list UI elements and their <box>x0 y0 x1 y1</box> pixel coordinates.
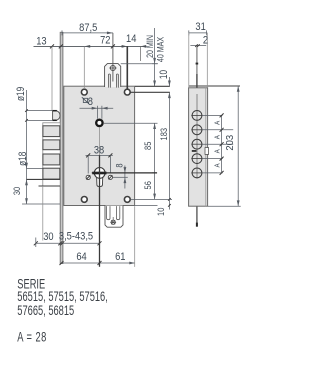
A ladder extension lines <box>202 114 223 116</box>
top latch bolt <box>105 64 121 87</box>
extension x140.5 <box>140 46 142 61</box>
dim 2 <box>190 45 206 47</box>
deadbolt box left extension down <box>42 186 44 241</box>
svg-text:61: 61 <box>115 252 126 264</box>
extension line x84.5 to screw <box>83 46 85 89</box>
183/10-bottom dimension line <box>168 92 170 209</box>
body bottom extension line <box>135 204 158 206</box>
svg-text:ø19: ø19 <box>15 87 27 101</box>
svg-text:8: 8 <box>88 96 94 108</box>
side bolt circle 2 <box>191 125 202 135</box>
latch top extension line <box>121 63 158 65</box>
svg-text:A: A <box>214 135 222 140</box>
upper rod light part <box>196 47 198 75</box>
deadbolt 4 <box>43 168 60 179</box>
svg-text:87,5: 87,5 <box>79 22 98 34</box>
dim 8 right of cylinder <box>113 176 128 178</box>
euro cylinder body circle <box>94 168 105 179</box>
dim 30 / 3,5-43,5 <box>36 242 100 244</box>
bottom screw extension line <box>130 198 172 200</box>
lock body case <box>64 86 135 205</box>
lower rod <box>196 206 198 226</box>
svg-text:2: 2 <box>203 35 209 47</box>
extension line x52 <box>51 46 53 110</box>
svg-text:10: 10 <box>155 207 166 216</box>
body right edge extension down <box>134 206 136 267</box>
square symbol of dim 8 <box>82 97 89 103</box>
svg-text:3,5-43,5: 3,5-43,5 <box>59 231 94 243</box>
side dark insert <box>192 150 197 152</box>
corner screw hole bottom-right <box>124 197 130 203</box>
dim 72 left arrow <box>84 45 90 48</box>
corner screw hole bottom-left <box>81 197 87 203</box>
deadbolt 2 <box>43 140 60 150</box>
heavy extension x127.3 to screw <box>126 46 128 89</box>
svg-text:30: 30 <box>43 232 54 244</box>
side faceplate inner line <box>205 88 207 206</box>
dim 38 <box>86 154 113 156</box>
svg-text:38: 38 <box>94 145 105 157</box>
svg-text:56515, 57515, 57516,: 56515, 57515, 57516, <box>17 291 108 305</box>
svg-text:14: 14 <box>126 33 137 45</box>
svg-text:8: 8 <box>113 163 124 167</box>
svg-text:85: 85 <box>142 141 153 150</box>
bottom latch screw crosshair <box>110 217 116 224</box>
dim 31 <box>189 32 208 34</box>
dim 64/61 <box>62 262 136 264</box>
follower extension line <box>104 122 158 124</box>
side centerline stub <box>196 94 198 179</box>
bottom latch bolt <box>105 206 123 228</box>
latch centerline <box>112 33 114 82</box>
20MIN/40MAX dimension line <box>154 28 156 86</box>
svg-text:183: 183 <box>158 128 169 141</box>
faceplate edge band <box>60 32 63 263</box>
side bolt circle 3 <box>191 139 202 149</box>
lower rod tip <box>196 223 198 227</box>
side bolt circle 4 <box>191 154 202 164</box>
svg-text:203: 203 <box>225 135 236 151</box>
A ladder vertical <box>221 115 223 172</box>
euro cylinder keyway <box>97 176 103 187</box>
svg-text:56: 56 <box>142 181 153 190</box>
deadbolt housing box <box>43 123 60 186</box>
svg-text:20 MIN: 20 MIN <box>144 35 155 58</box>
top latch slots <box>108 74 118 88</box>
corner screw hole top-right <box>124 89 130 95</box>
latch tip mark on rod <box>196 63 199 65</box>
svg-text:A: A <box>214 149 222 154</box>
10-top dimension line <box>168 77 170 86</box>
svg-text:31: 31 <box>195 22 206 34</box>
extension top screw line <box>130 91 169 93</box>
deadbolt 1 <box>43 126 60 137</box>
svg-text:40 MAX: 40 MAX <box>155 37 166 63</box>
svg-text:72: 72 <box>100 35 111 47</box>
dim 87,5 <box>62 32 113 34</box>
side bolt circle 1 <box>191 111 202 121</box>
dim chain 13/72/14 <box>34 45 147 47</box>
cylinder side hole right <box>108 175 112 179</box>
side bar body <box>189 88 208 206</box>
svg-text:13: 13 <box>36 36 47 48</box>
hinge pin o19 <box>53 111 60 121</box>
square-8 dim <box>80 107 114 109</box>
side bar bottom extension <box>208 205 241 207</box>
svg-text:57665, 56815: 57665, 56815 <box>17 304 74 318</box>
deadbolt box bottom edge <box>39 185 61 187</box>
corner screw hole top-left <box>81 89 87 95</box>
85/56 dimension line <box>154 123 156 199</box>
heavy cylinder centerline horizontal <box>92 172 157 174</box>
svg-text:10: 10 <box>158 70 170 79</box>
caption text block <box>17 278 108 345</box>
dim 203 <box>237 86 239 206</box>
tick at x60.8 <box>59 44 63 48</box>
svg-text:ø18: ø18 <box>17 152 29 166</box>
upper rod dark part <box>196 74 198 88</box>
cylinder cam bar <box>92 172 106 175</box>
top latch screw crosshair <box>109 66 116 71</box>
tick at x52 <box>50 44 54 48</box>
svg-text:A: A <box>214 120 222 125</box>
vertical centerline below follower <box>99 128 101 156</box>
tick at x112.9 <box>111 44 115 48</box>
follower square hub <box>95 119 104 128</box>
arrows of dim 14 <box>122 45 128 48</box>
side bolt circle 5 <box>191 168 202 178</box>
side notch <box>205 148 209 155</box>
cylinder side hole left <box>86 175 90 179</box>
svg-text:A = 28: A = 28 <box>17 331 47 345</box>
deadbolt 3 <box>43 154 60 165</box>
slashes through side holes <box>86 175 90 179</box>
svg-text:A: A <box>214 163 222 168</box>
bottom latch slots <box>107 206 120 220</box>
svg-text:64: 64 <box>76 252 87 264</box>
extension line body top edge <box>135 85 170 87</box>
left dim column o19/o18/30 <box>26 90 28 204</box>
30 left bottom arrow <box>25 198 28 204</box>
extension line side bar top for 203 <box>189 85 240 87</box>
o18 arrows <box>25 163 28 169</box>
svg-text:30: 30 <box>11 187 22 196</box>
